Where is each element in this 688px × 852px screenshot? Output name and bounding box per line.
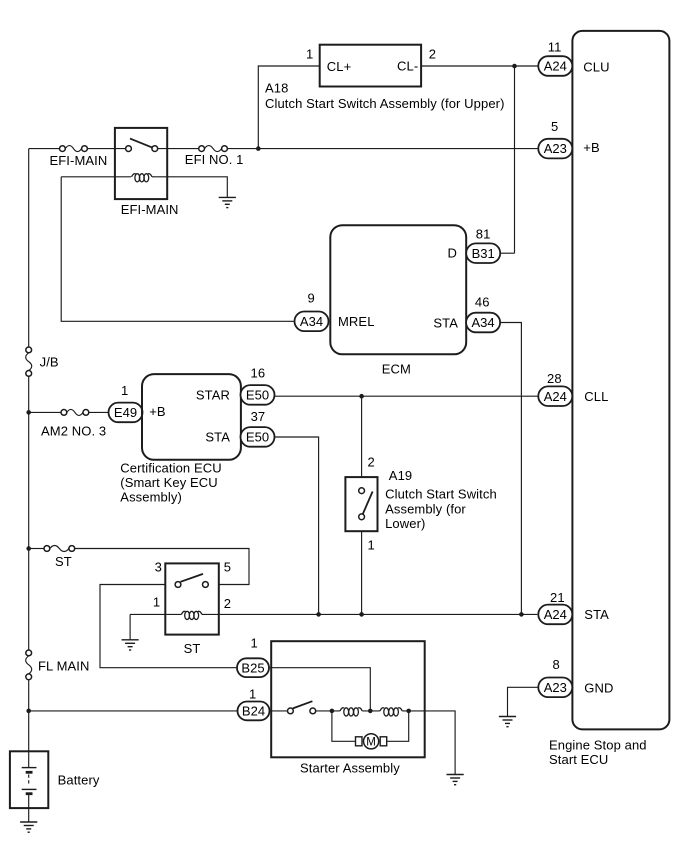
wire: motor branch down-right-up [332, 711, 358, 741]
wire: +B row from bus corner to EFI-MAIN fuse [29, 148, 60, 150]
wire: bus from FL MAIN down to battery [28, 680, 30, 752]
svg-text:1: 1 [249, 687, 256, 702]
svg-text:A24: A24 [544, 607, 567, 622]
svg-text:9: 9 [308, 291, 315, 306]
wire: GND pin to ground [508, 687, 539, 716]
battery cells [22, 751, 37, 822]
relay EFI-MAIN switch blade [130, 139, 152, 148]
junction STA row x A34-46 branch [519, 612, 524, 617]
contacts of A19 switch [359, 488, 365, 494]
wire: starter switch to coil 1 [316, 710, 340, 712]
wire: A34 pin 46 right then down to STA row [500, 323, 521, 615]
svg-text:STAR: STAR [196, 388, 230, 403]
svg-text:FL MAIN: FL MAIN [38, 659, 90, 674]
junction at motor branch left [330, 709, 335, 714]
wire: STA row from E50 pin37 right then down to starter STA row [275, 437, 319, 614]
svg-text:A23: A23 [544, 141, 567, 156]
junction on CLL row at A19 branch [359, 394, 364, 399]
fuse EFI NO. 1 [199, 146, 228, 152]
svg-text:B24: B24 [242, 704, 265, 719]
svg-text:5: 5 [224, 560, 231, 575]
switch A18 box (Clutch Start Switch for Upper) [320, 45, 421, 87]
fuse ST [44, 546, 75, 552]
svg-text:EFI NO. 1: EFI NO. 1 [185, 152, 244, 167]
wire: A19 pin 1 down to STA row [361, 531, 363, 614]
wire: B25 into starter then down to solenoid junction [269, 668, 370, 711]
junction on +B row at A18 branch [256, 146, 261, 151]
svg-text:1: 1 [121, 383, 128, 398]
connector B25 oval [237, 658, 269, 677]
svg-text:A34: A34 [300, 314, 323, 329]
ground at battery [20, 822, 37, 832]
wire: EFI-MAIN fuse to relay left contact [87, 148, 125, 150]
svg-text:Engine Stop and: Engine Stop and [549, 738, 647, 753]
starter switch blade [293, 701, 313, 708]
Certification ECU box [142, 374, 241, 460]
svg-text:A19: A19 [389, 468, 412, 483]
svg-text:1: 1 [153, 595, 160, 610]
connector A34 pin 9 oval [295, 312, 329, 332]
Starter Assembly box [271, 641, 425, 757]
connector A34 pin 46 oval [466, 313, 500, 333]
svg-text:MREL: MREL [338, 314, 375, 329]
svg-text:STA: STA [584, 607, 609, 622]
starter switch contacts [288, 708, 294, 714]
svg-text:Battery: Battery [58, 773, 100, 788]
wire: ST relay pin 3 left, down, right to B25 oval [100, 585, 237, 668]
wire: STAR/CLL row from E50 pin16 to CLL pin A24 [275, 395, 539, 397]
wire: ST fuse right then down to ST relay pin 5 [75, 549, 249, 585]
svg-text:AM2 NO. 3: AM2 NO. 3 [41, 424, 106, 439]
relay EFI-MAIN box [115, 128, 167, 199]
svg-text:B31: B31 [472, 246, 495, 261]
svg-text:A34: A34 [472, 315, 495, 330]
relay EFI-MAIN coil [132, 174, 153, 182]
svg-text:11: 11 [548, 40, 562, 55]
svg-text:46: 46 [475, 294, 490, 309]
svg-text:8: 8 [553, 657, 560, 672]
wire: EFI NO. 1 fuse to +B pin A23 of Engine Stop and Start ECU [227, 148, 538, 150]
connector E49 oval [109, 403, 143, 423]
svg-text:Start ECU: Start ECU [549, 752, 608, 767]
svg-text:A24: A24 [544, 389, 567, 404]
svg-text:E50: E50 [246, 388, 269, 403]
svg-text:2: 2 [224, 596, 231, 611]
wire between coils [362, 710, 380, 712]
svg-text:+B: +B [149, 404, 165, 419]
connector A23 +B oval [538, 139, 572, 159]
svg-text:1: 1 [306, 47, 313, 62]
ground at Engine Stop and Start ECU [499, 717, 516, 727]
wire: ST relay coil pin 2 to STA pin A24 [202, 613, 537, 615]
svg-text:+B: +B [583, 140, 599, 155]
connector E50 pin 16 oval [241, 385, 275, 405]
junction on bus at B24 row [26, 709, 31, 714]
wire: ST row from bus to ST fuse [29, 548, 44, 550]
svg-text:A24: A24 [544, 59, 567, 74]
wire: MREL net from coil elbow down and right to A34 pin 9 [61, 177, 294, 321]
wire: B24 oval to starter switch [270, 710, 288, 712]
svg-text:CL-: CL- [397, 59, 418, 74]
svg-text:Clutch Start Switch Assembly (: Clutch Start Switch Assembly (for Upper) [265, 96, 505, 111]
connector A24 CLU oval [538, 56, 572, 76]
starter solenoid coil 1 [340, 708, 362, 716]
svg-text:1: 1 [368, 538, 375, 553]
wire: A18 pin 1 from +B row junction up and right to A18 box [258, 66, 319, 149]
wire: relay coil right lead to ground elbow [152, 177, 227, 198]
connector E50 pin 37 oval [241, 427, 275, 447]
svg-text:A23: A23 [544, 680, 567, 695]
svg-text:J/B: J/B [40, 355, 59, 370]
junction at motor branch right [406, 709, 411, 714]
wire: vertical from CLU row junction down to B31 row [514, 66, 516, 253]
svg-text:CLU: CLU [583, 59, 609, 74]
svg-text:Certification ECU: Certification ECU [120, 460, 221, 475]
svg-text:B25: B25 [241, 660, 264, 675]
svg-text:EFI-MAIN: EFI-MAIN [121, 202, 179, 217]
wire: B24 row from bus to oval [29, 710, 238, 712]
svg-text:(Smart Key ECU: (Smart Key ECU [120, 475, 217, 490]
connector B24 oval [238, 702, 270, 721]
wire: A19 pin 2 from CLL row junction down to A19 box [361, 396, 363, 477]
svg-text:16: 16 [251, 366, 266, 381]
junction on CLU row at B31 branch [512, 64, 517, 69]
svg-text:EFI-MAIN: EFI-MAIN [50, 153, 108, 168]
blade of A19 switch [363, 492, 373, 515]
svg-text:81: 81 [476, 227, 491, 242]
connector A24 CLL oval [538, 386, 572, 406]
wire: ST relay coil leads inside box [165, 613, 181, 615]
svg-text:Lower): Lower) [385, 516, 425, 531]
relay ST box [165, 563, 219, 634]
svg-text:37: 37 [251, 409, 266, 424]
relay ST coil [181, 611, 202, 619]
svg-text:3: 3 [155, 560, 162, 575]
ground at ST relay coil [122, 640, 139, 650]
wire: bus between J/B and FL MAIN [28, 376, 30, 650]
svg-text:E49: E49 [114, 405, 137, 420]
relay ST switch blade [181, 574, 204, 582]
svg-text:GND: GND [584, 680, 613, 695]
wire: relay right contact to EFI NO. 1 fuse [158, 148, 199, 150]
svg-text:CLL: CLL [584, 389, 608, 404]
junction STA row x A19 branch [359, 612, 364, 617]
svg-text:Clutch Start Switch: Clutch Start Switch [385, 487, 497, 502]
svg-text:STA: STA [205, 430, 230, 445]
wire: relay coil left lead to elbow [61, 176, 131, 178]
svg-text:Starter Assembly: Starter Assembly [300, 761, 400, 776]
svg-text:2: 2 [429, 47, 436, 62]
wire: A18 pin 2 to CLU pin A24 [421, 65, 538, 67]
svg-text:STA: STA [433, 315, 458, 330]
svg-text:1: 1 [251, 636, 258, 651]
svg-text:M: M [366, 737, 376, 749]
switch A19 box (Clutch Start Switch for Lower) [345, 477, 377, 531]
ground at starter [447, 775, 464, 785]
junction on bus at ST row [26, 546, 31, 551]
wire: left bus from EFI-MAIN row down to J/B fuse [28, 149, 30, 347]
svg-text:CL+: CL+ [327, 59, 352, 74]
battery box [10, 751, 48, 808]
motor M symbol [356, 734, 387, 749]
svg-text:2: 2 [368, 455, 375, 470]
connector A23 GND oval [538, 678, 572, 698]
fuse EFI-MAIN [60, 146, 88, 152]
svg-text:5: 5 [551, 119, 558, 134]
Engine Stop and Start ECU box [572, 31, 669, 730]
fuse AM2 NO. 3 [61, 409, 89, 415]
ground at EFI-MAIN relay coil [219, 197, 236, 207]
svg-text:21: 21 [550, 590, 565, 605]
svg-text:28: 28 [547, 371, 562, 386]
junction on bus at AM2 NO. 3 row [26, 410, 31, 415]
svg-text:ST: ST [184, 641, 201, 656]
starter solenoid coil 2 [380, 708, 402, 716]
svg-text:Assembly (for: Assembly (for [385, 501, 466, 516]
svg-text:ECM: ECM [382, 362, 411, 377]
relay ST contact circles [175, 582, 181, 588]
connector A24 STA oval [538, 605, 572, 625]
wire: B31 oval to vertical [501, 252, 515, 254]
junction at B25 feed [368, 709, 373, 714]
svg-text:ST: ST [55, 554, 72, 569]
relay EFI-MAIN contact circles [126, 146, 132, 152]
svg-text:A18: A18 [265, 81, 288, 96]
junction STA row x E50-37 branch [316, 612, 321, 617]
wire: AM2 NO. 3 row from bus to fuse [29, 411, 61, 413]
wire: ST relay coil pin 1 to ground [130, 613, 165, 615]
svg-text:D: D [448, 246, 458, 261]
wire: AM2 fuse to E49 oval [89, 411, 109, 413]
svg-text:E50: E50 [246, 430, 269, 445]
wire: coil 2 to ground elbow [402, 711, 455, 775]
fuse FL MAIN [26, 650, 32, 680]
ECM box [330, 225, 466, 354]
connector B31 oval [466, 243, 500, 263]
svg-text:Assembly): Assembly) [120, 490, 182, 505]
fuse J/B [26, 347, 32, 376]
